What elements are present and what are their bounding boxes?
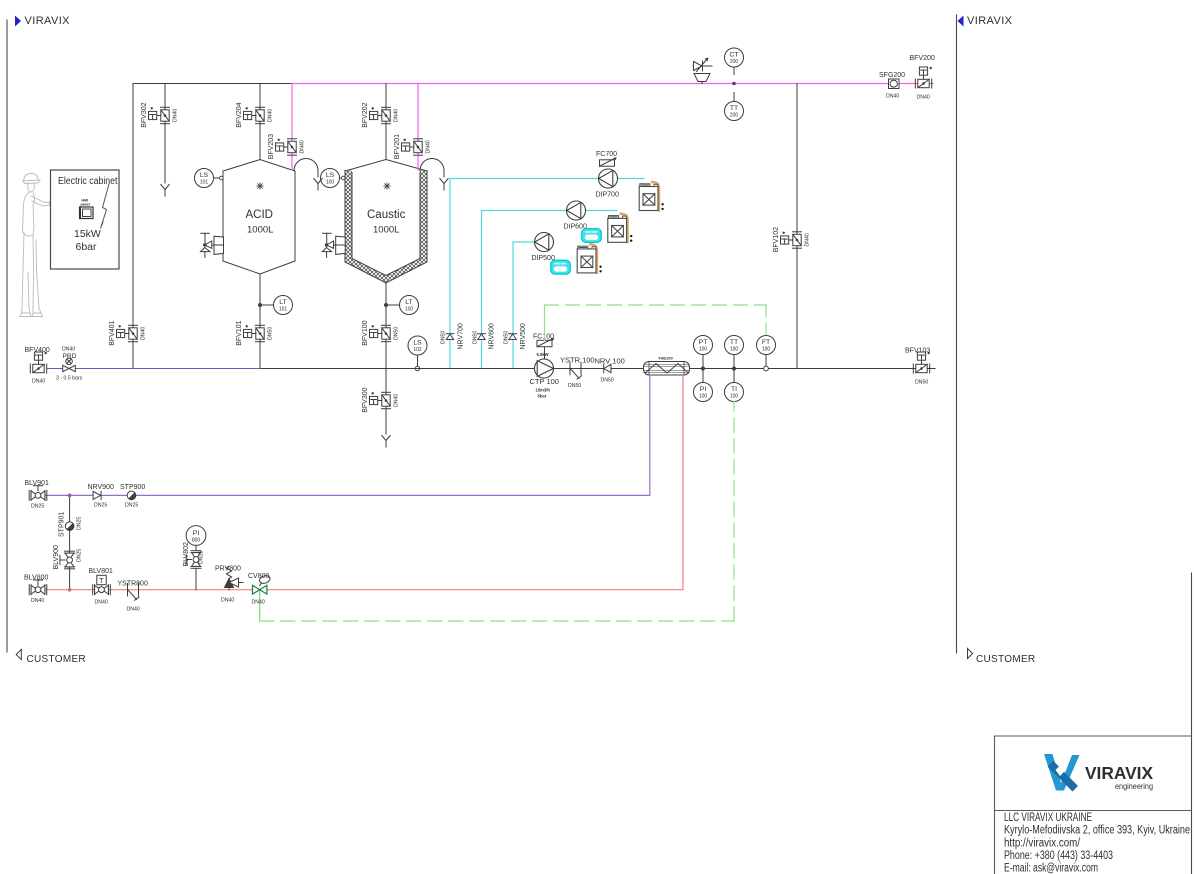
splash pack 1	[582, 229, 602, 243]
check valve NRV700	[446, 334, 454, 340]
svg-text:STP901: STP901	[59, 512, 66, 537]
svg-text:DN40: DN40	[32, 379, 45, 385]
instrument TT100	[733, 355, 735, 369]
svg-text:DN40: DN40	[300, 140, 306, 153]
ball valve BLV802	[186, 551, 201, 569]
junction dot on magenta	[732, 82, 736, 86]
svg-text:DN25: DN25	[77, 549, 83, 562]
electric cabinet box	[51, 170, 120, 269]
drain fork below BFV300	[382, 436, 390, 448]
sparger star in CAUSTIC	[384, 183, 390, 189]
node VIRAVIX top-left marker	[15, 16, 21, 27]
svg-text:BLV900: BLV900	[53, 545, 60, 569]
svg-text:1000L: 1000L	[247, 225, 273, 236]
svg-text:DN40: DN40	[917, 95, 930, 101]
wire left riser	[132, 84, 134, 369]
svg-text:http://viravix.com/: http://viravix.com/	[1004, 838, 1081, 850]
svg-text:DN25: DN25	[94, 503, 107, 509]
control valve CV800	[253, 585, 267, 594]
svg-text:200: 200	[730, 113, 739, 119]
svg-text:DN40: DN40	[173, 109, 179, 122]
svg-text:BFV101: BFV101	[236, 320, 243, 345]
svg-text:CT: CT	[729, 52, 738, 59]
strainer YSTR800	[128, 584, 140, 601]
wire main process line black	[260, 368, 935, 370]
svg-text:E-mail: ask@viravix.com: E-mail: ask@viravix.com	[1004, 863, 1098, 874]
svg-text:DN40: DN40	[141, 327, 147, 340]
controller FC100	[544, 347, 546, 360]
svg-text:DN40: DN40	[31, 598, 44, 604]
valve BFV300	[370, 392, 391, 409]
check valve NRV900	[93, 491, 101, 499]
instrument LS102	[408, 336, 427, 355]
valve BFV400	[30, 352, 47, 373]
pressure reducer PRD	[63, 358, 76, 372]
svg-text:100: 100	[730, 394, 739, 400]
svg-text:100: 100	[730, 347, 739, 353]
check valve NRV500	[509, 334, 517, 340]
tank CAUSTIC top outline	[345, 160, 427, 172]
svg-text:YSTR800: YSTR800	[118, 581, 148, 588]
valve BFV302	[149, 107, 170, 124]
valve BFV203	[276, 139, 297, 156]
controller FC700	[600, 157, 617, 166]
svg-text:PRD: PRD	[63, 353, 77, 360]
svg-text:TT: TT	[730, 339, 738, 346]
instrument PT100	[702, 355, 704, 369]
svg-text:100: 100	[699, 347, 708, 353]
svg-text:panel: panel	[81, 203, 90, 207]
svg-text:DN40: DN40	[221, 598, 234, 604]
valve BFV202	[370, 107, 391, 124]
svg-text:DIP700: DIP700	[596, 192, 619, 199]
svg-text:DN50: DN50	[268, 327, 274, 340]
svg-text:BFV300: BFV300	[362, 387, 369, 412]
svg-text:LT: LT	[405, 299, 412, 306]
instrument LT101	[258, 303, 262, 307]
svg-text:LLC VIRAVIX UKRAINE: LLC VIRAVIX UKRAINE	[1004, 812, 1092, 824]
svg-text:TT: TT	[730, 105, 738, 112]
svg-text:LS: LS	[326, 172, 335, 179]
valve BFV101	[244, 325, 265, 342]
svg-text:DN25: DN25	[199, 551, 205, 564]
valve BFV102	[781, 232, 802, 249]
wire riser x797	[796, 84, 798, 369]
wire BFV302 branch	[164, 84, 166, 184]
svg-text:DN25: DN25	[125, 503, 138, 509]
svg-text:DN40: DN40	[127, 607, 140, 613]
svg-text:DN40: DN40	[95, 600, 108, 606]
ball valve BLV800	[29, 580, 47, 595]
svg-text:BFV103: BFV103	[905, 348, 930, 355]
instrument FT100	[765, 355, 767, 367]
instrument TT200	[733, 93, 735, 102]
sight glass SFG200	[889, 79, 900, 89]
svg-text:T: T	[99, 576, 104, 585]
svg-text:BFV401: BFV401	[109, 320, 116, 345]
svg-text:DN40: DN40	[426, 140, 432, 153]
title block frame	[995, 736, 1192, 874]
svg-text:NRV700: NRV700	[457, 323, 464, 349]
svg-text:100: 100	[326, 180, 335, 186]
valve BFV401	[117, 325, 138, 342]
svg-text:5bar: 5bar	[538, 394, 547, 399]
canister 1	[639, 182, 664, 211]
svg-text:Phone: +380 (443) 33-4403: Phone: +380 (443) 33-4403	[1004, 850, 1113, 862]
heat exchanger THE100	[644, 362, 690, 376]
valve BFV201	[402, 139, 423, 156]
instrument PI100	[702, 369, 704, 383]
wire ACID feed pipe	[259, 84, 261, 160]
svg-text:DN40: DN40	[62, 347, 75, 353]
node CUSTOMER bottom-right marker	[968, 649, 973, 659]
wire cyan dosing 500	[513, 242, 553, 369]
instrument CT200	[725, 48, 744, 67]
ball valve BLV801	[93, 580, 111, 595]
wire green control loop FT-FC	[545, 305, 767, 341]
wire cyan dosing 600	[482, 211, 618, 369]
svg-text:LS: LS	[200, 172, 209, 179]
valve BFV200	[915, 67, 932, 88]
svg-text:DN50: DN50	[472, 331, 478, 344]
canister 2	[608, 214, 633, 243]
instrument TI100	[733, 369, 735, 383]
wire red return line	[37, 376, 683, 590]
pump DIP600	[567, 201, 586, 220]
tank ACID outline	[223, 160, 295, 275]
svg-text:THE100: THE100	[658, 356, 673, 361]
drain fork below BFV302	[161, 185, 169, 197]
svg-text:STP900: STP900	[120, 484, 145, 491]
valve BFV103	[913, 352, 930, 373]
svg-text:BLV802: BLV802	[183, 542, 190, 566]
svg-text:FT: FT	[762, 339, 770, 346]
shut-off STP900	[127, 491, 136, 500]
wire water inlet blue	[47, 368, 260, 370]
svg-text:BFV201: BFV201	[394, 134, 401, 159]
svg-text:FC700: FC700	[596, 151, 617, 158]
svg-text:NRV600: NRV600	[489, 323, 496, 349]
svg-text:DN40: DN40	[805, 233, 811, 246]
svg-text:DN40: DN40	[252, 600, 265, 606]
svg-text:PI: PI	[193, 530, 200, 537]
svg-text:BFV203: BFV203	[268, 134, 275, 159]
svg-text:BFV302: BFV302	[141, 102, 148, 127]
sheet right edge	[1191, 573, 1193, 874]
svg-text:101: 101	[279, 307, 288, 313]
sampling funnel	[694, 74, 710, 84]
svg-text:DN50: DN50	[503, 331, 509, 344]
svg-text:VIRAVIX: VIRAVIX	[25, 15, 71, 27]
node VIRAVIX top-right marker	[958, 16, 964, 27]
right border line	[956, 15, 958, 653]
shut-off STP901	[65, 522, 74, 531]
wire cyan dosing 700	[450, 179, 644, 369]
svg-text:DN40: DN40	[394, 394, 400, 407]
svg-text:6bar: 6bar	[76, 241, 98, 253]
svg-text:BFV400: BFV400	[25, 347, 50, 354]
svg-text:VIRAVIX: VIRAVIX	[1085, 763, 1153, 783]
svg-text:DN40: DN40	[886, 94, 899, 100]
instrument LT100	[384, 303, 388, 307]
strainer YSTR100	[570, 362, 582, 379]
svg-text:PT: PT	[699, 339, 708, 346]
svg-text:PRV800: PRV800	[215, 566, 241, 573]
ACID outlet pipe	[259, 274, 261, 369]
svg-text:DN50: DN50	[601, 378, 614, 384]
svg-text:SFG200: SFG200	[879, 72, 905, 79]
svg-text:BFV200: BFV200	[910, 55, 935, 62]
CAUSTIC outlet pipe	[385, 283, 387, 369]
svg-text:Kyrylo-Mefodiivska 2, office 3: Kyrylo-Mefodiivska 2, office 393, Kyiv, …	[1004, 825, 1190, 837]
relief valve PRV800	[225, 566, 244, 589]
relief valve on ACID wall	[201, 233, 224, 257]
svg-text:engineering: engineering	[1115, 782, 1153, 791]
svg-text:BLV800: BLV800	[24, 575, 48, 582]
wire CAUSTIC feed pipe	[385, 84, 387, 160]
node CUSTOMER bottom-left marker	[16, 650, 21, 660]
svg-text:200: 200	[730, 59, 739, 65]
instrument LS100	[321, 169, 340, 188]
relief valve on CAUSTIC wall	[322, 233, 345, 257]
pump DIP500	[535, 233, 554, 252]
wire green dashed TI loop	[260, 402, 734, 622]
svg-text:NRV500: NRV500	[520, 323, 527, 349]
wire magenta drop A	[291, 84, 293, 171]
left border line	[6, 20, 8, 652]
valve BFV204	[244, 107, 265, 124]
pump DIP700	[599, 169, 618, 188]
svg-text:800: 800	[192, 538, 201, 544]
svg-text:101: 101	[200, 180, 209, 186]
svg-text:15kW: 15kW	[74, 228, 101, 240]
tank CAUSTIC hatched walls	[345, 171, 427, 284]
svg-text:102: 102	[413, 347, 422, 353]
wire drain branch BFV300	[385, 369, 387, 435]
canister 3	[577, 244, 602, 273]
hose arc ACID	[294, 159, 318, 178]
svg-text:BLV901: BLV901	[25, 480, 49, 487]
svg-text:100: 100	[699, 394, 708, 400]
svg-text:LS: LS	[413, 340, 422, 347]
splash pack 2	[551, 260, 571, 274]
check valve NRV100	[604, 364, 611, 373]
pump CTP100	[535, 359, 554, 378]
svg-text:YSTR 100: YSTR 100	[560, 356, 595, 365]
svg-text:BLV801: BLV801	[89, 568, 113, 575]
svg-text:BFV204: BFV204	[236, 102, 243, 127]
svg-text:CUSTOMER: CUSTOMER	[976, 654, 1035, 665]
svg-text:DN50: DN50	[915, 380, 928, 386]
svg-text:LT: LT	[279, 299, 286, 306]
svg-text:BFV102: BFV102	[773, 227, 780, 252]
svg-text:CV800: CV800	[248, 573, 270, 580]
svg-text:TI: TI	[731, 386, 737, 393]
wire magenta drop B	[417, 84, 419, 171]
instrument PI800	[186, 526, 206, 546]
lightning bolt	[101, 184, 110, 229]
sparger star in ACID	[257, 183, 263, 189]
wire purple supply line	[37, 376, 650, 496]
svg-text:DN25: DN25	[77, 517, 83, 530]
svg-text:NRV 100: NRV 100	[595, 357, 625, 366]
wire cross connection	[69, 495, 71, 589]
hose arc CAUSTIC	[420, 159, 444, 178]
svg-text:NRV900: NRV900	[88, 484, 114, 491]
svg-text:BFV202: BFV202	[362, 102, 369, 127]
svg-text:PI: PI	[700, 386, 707, 393]
svg-text:100: 100	[405, 307, 414, 313]
svg-text:1000L: 1000L	[373, 225, 399, 236]
svg-text:DIP500: DIP500	[532, 255, 555, 262]
logo VX mark	[1044, 754, 1080, 792]
svg-text:DN50: DN50	[568, 383, 581, 389]
operator person figure	[20, 173, 50, 316]
svg-text:CUSTOMER: CUSTOMER	[27, 654, 86, 665]
svg-text:DN50: DN50	[394, 327, 400, 340]
svg-text:VIRAVIX: VIRAVIX	[967, 15, 1013, 27]
wire top header black	[133, 83, 292, 85]
svg-text:100: 100	[762, 347, 771, 353]
svg-text:DN40: DN40	[394, 109, 400, 122]
svg-text:CTP 100: CTP 100	[530, 377, 559, 386]
valve BFV100	[370, 325, 391, 342]
svg-text:15m3/h: 15m3/h	[536, 388, 551, 393]
instrument LS101	[195, 169, 214, 188]
svg-text:BFV100: BFV100	[362, 320, 369, 345]
svg-text:Caustic: Caustic	[367, 209, 406, 221]
sampling vent valve	[693, 58, 712, 72]
check valve NRV600	[478, 334, 486, 340]
ball valve BLV901	[29, 486, 47, 501]
svg-text:ACID: ACID	[246, 209, 273, 221]
svg-text:FC100: FC100	[533, 334, 554, 341]
wire magenta header	[292, 83, 933, 85]
svg-text:3 - 0.5 bars: 3 - 0.5 bars	[56, 376, 83, 382]
svg-text:DN25: DN25	[31, 504, 44, 510]
svg-text:5.5kW: 5.5kW	[537, 352, 549, 357]
ball valve BLV900	[60, 551, 75, 569]
svg-text:DN40: DN40	[268, 109, 274, 122]
svg-text:DN50: DN50	[440, 331, 446, 344]
title block address text	[1004, 812, 1190, 874]
